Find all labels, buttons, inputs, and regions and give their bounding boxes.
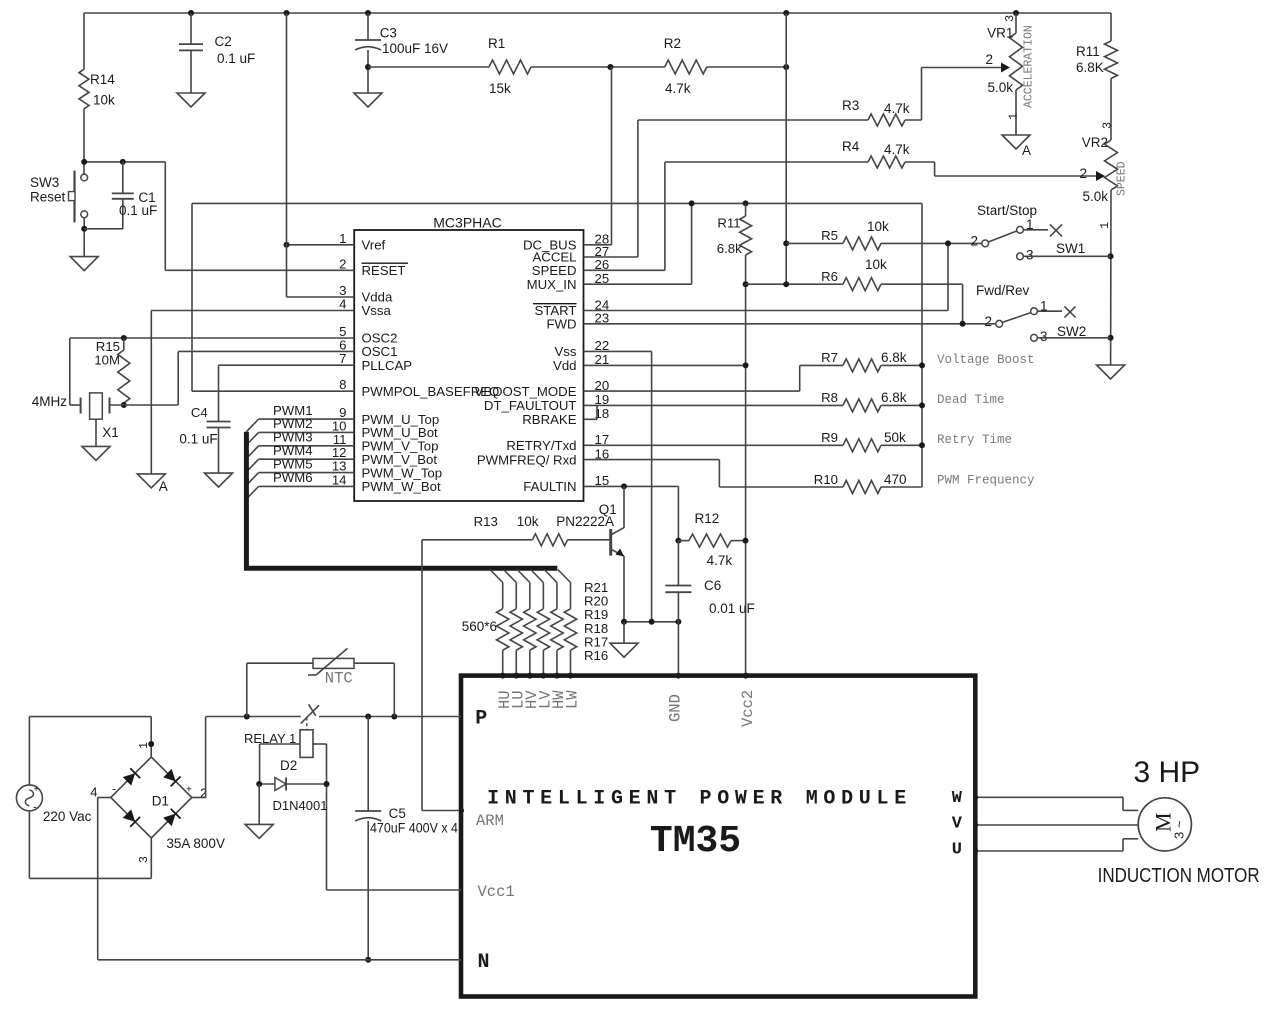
svg-text:8: 8 — [339, 377, 346, 392]
junction rail-VR1 — [1013, 10, 1019, 16]
resistor R9 — [843, 439, 881, 452]
svg-text:-: - — [33, 802, 37, 814]
junction C3-R1 — [365, 64, 371, 70]
wire pin25 MUX_IN — [584, 283, 692, 285]
capacitor C1 — [84, 162, 134, 229]
svg-text:1: 1 — [1007, 113, 1021, 120]
thermistor NTC — [313, 658, 354, 668]
wire R12 wires — [678, 540, 689, 542]
diode D1 3-2 — [163, 814, 176, 827]
junction NTC right — [391, 714, 397, 720]
svg-text:1: 1 — [138, 742, 151, 749]
resistor R5 — [843, 237, 881, 250]
switch SW2 — [996, 308, 1062, 341]
svg-text:R9: R9 — [821, 430, 838, 445]
svg-text:PWM_W_Top: PWM_W_Top — [362, 465, 443, 480]
svg-text:X1: X1 — [102, 425, 119, 440]
junction GND pin — [675, 673, 681, 679]
junction U pin — [973, 848, 978, 853]
junction SW2-3 — [1108, 335, 1114, 341]
svg-text:C2: C2 — [215, 34, 232, 49]
svg-text:Vdd: Vdd — [553, 358, 576, 373]
svg-text:15k: 15k — [489, 81, 511, 96]
svg-text:4: 4 — [90, 785, 97, 800]
junction R6-rail — [743, 281, 749, 287]
svg-text:RESET: RESET — [362, 263, 406, 278]
svg-text:470: 470 — [884, 472, 907, 487]
svg-text:A: A — [1022, 143, 1031, 158]
svg-text:Fwd/Rev: Fwd/Rev — [976, 283, 1030, 298]
svg-text:SPEED: SPEED — [1116, 161, 1129, 196]
svg-text:SW3: SW3 — [30, 175, 59, 190]
wire SW1-3 to gnd col — [1023, 255, 1110, 257]
ic IPM TM35 box — [461, 676, 975, 997]
wire x786 vertical — [785, 13, 787, 284]
svg-text:PWM6: PWM6 — [273, 470, 313, 485]
ground VR2/SW — [1097, 365, 1125, 379]
svg-text:PLLCAP: PLLCAP — [362, 358, 413, 373]
wire pin21 Vdd — [584, 364, 746, 366]
resistor R4 — [868, 156, 905, 168]
ground Q1 — [610, 643, 638, 657]
wire R10 line left — [719, 486, 843, 488]
ground D2 — [245, 824, 273, 838]
labels R16-R21 — [584, 580, 608, 663]
svg-text:4.7k: 4.7k — [665, 81, 691, 96]
resistor R1 — [489, 60, 531, 74]
wire U out — [975, 850, 1123, 852]
wire pin17 RETRY to R9 — [584, 444, 844, 446]
wire START up to R5 — [947, 243, 949, 310]
svg-text:W: W — [952, 789, 963, 808]
svg-text:3: 3 — [1003, 15, 1017, 22]
svg-text:INDUCTION MOTOR: INDUCTION MOTOR — [1098, 865, 1260, 887]
svg-text:10k: 10k — [867, 219, 889, 234]
svg-text:R14: R14 — [90, 72, 115, 87]
junction C5 bottom — [365, 957, 371, 963]
wire R2 right — [707, 66, 787, 68]
wire reset top — [84, 161, 165, 163]
wire R4 right — [905, 161, 935, 163]
junction FAULTIN-Q1 — [621, 483, 627, 489]
svg-text:Vss: Vss — [555, 344, 577, 359]
junction W pin — [973, 795, 978, 800]
wire OSC1 down — [177, 351, 179, 405]
svg-text:560*6: 560*6 — [462, 619, 497, 634]
junction V pin — [973, 822, 978, 827]
junction R12 left — [675, 538, 681, 544]
junction bridge pin1 — [148, 741, 154, 747]
wire W out — [975, 796, 1123, 798]
wire D2 gnd stub — [258, 784, 260, 824]
svg-text:A: A — [159, 479, 168, 494]
junction C6-node — [675, 619, 681, 625]
wire pin5 OSC2 — [70, 337, 354, 339]
resistor R15 — [118, 338, 130, 405]
resistor R11 pullup 6.8k — [740, 203, 752, 675]
wire R3 right — [905, 119, 922, 121]
svg-text:-: - — [112, 781, 116, 795]
svg-text:6: 6 — [339, 337, 346, 352]
svg-text:4.7k: 4.7k — [707, 553, 733, 568]
wire Vcc1 line — [327, 889, 462, 891]
svg-text:3 HP: 3 HP — [1133, 756, 1200, 789]
resistor R10 — [843, 481, 881, 494]
wire pullup bus top — [192, 202, 922, 204]
junction pullup-R11 — [743, 200, 749, 206]
svg-text:Vcc2: Vcc2 — [739, 690, 757, 727]
wire AC bottom right — [29, 877, 151, 879]
wire SPEED up — [664, 162, 666, 270]
wire R9 right — [881, 444, 922, 446]
wire AC top up — [28, 717, 30, 785]
svg-text:D1N4001: D1N4001 — [273, 798, 328, 813]
svg-text:3 ~: 3 ~ — [1172, 820, 1187, 839]
motor M 3~ — [1138, 798, 1191, 851]
svg-text:13: 13 — [332, 459, 347, 474]
wire coil left — [260, 743, 300, 745]
junction R15 top — [121, 335, 127, 341]
junctions 560 bank to IPM — [500, 673, 574, 679]
capacitor C3 — [355, 13, 381, 93]
ground X1 — [82, 446, 110, 460]
wire pin27 ACCEL — [584, 256, 638, 258]
svg-text:R12: R12 — [695, 511, 720, 526]
switch SW3 — [69, 171, 88, 223]
svg-text:3: 3 — [1040, 329, 1048, 344]
resistor R13 — [533, 534, 568, 546]
svg-text:VR2: VR2 — [1082, 135, 1108, 150]
svg-text:50k: 50k — [884, 430, 906, 445]
crystal X1 — [81, 393, 110, 419]
wire pin2 RESET — [165, 269, 354, 271]
wire R13 left — [422, 539, 533, 541]
resistors 560*6 bank R16-R21 — [490, 570, 577, 676]
svg-text:+: + — [186, 784, 192, 795]
wire bridge1 lead — [150, 717, 152, 757]
wire pin7 PLLCAP — [219, 364, 355, 366]
svg-text:R16: R16 — [584, 648, 608, 663]
wire N line — [98, 959, 461, 961]
switch SW1 — [982, 226, 1048, 259]
svg-text:470uF 400V x 4: 470uF 400V x 4 — [370, 821, 458, 836]
wire pin16 PWMFREQ — [584, 459, 720, 461]
ground VR1 A — [1002, 135, 1030, 149]
junction R15 bottom — [121, 402, 127, 408]
wire Vssa down — [150, 311, 152, 474]
svg-text:SW2: SW2 — [1057, 324, 1086, 339]
wire reset route right — [164, 162, 166, 270]
svg-text:2: 2 — [339, 256, 346, 271]
wire pin26 SPEED — [584, 269, 665, 271]
transistor Q1 — [611, 528, 624, 557]
svg-text:2: 2 — [970, 234, 978, 249]
wire P line — [206, 716, 301, 718]
wire NTC right down — [393, 663, 395, 716]
labels HU LU HV LV HW LW — [496, 690, 582, 709]
svg-text:N: N — [478, 951, 490, 974]
svg-text:Voltage Boost: Voltage Boost — [937, 353, 1035, 367]
svg-text:4.7k: 4.7k — [884, 101, 910, 116]
wire R1 to node — [531, 66, 665, 68]
svg-text:MC3PHAC: MC3PHAC — [433, 215, 501, 231]
svg-text:OSC1: OSC1 — [362, 344, 398, 359]
svg-text:6.8k: 6.8k — [717, 241, 742, 256]
wire pin19 DT to R8 — [584, 404, 844, 406]
wire VR2 wiper line — [935, 175, 1098, 177]
junction SW1-3 — [1108, 253, 1114, 259]
wire VBOOST step up — [799, 365, 801, 391]
potentiometer VR1 — [1010, 13, 1023, 135]
svg-text:Vcc1: Vcc1 — [478, 883, 515, 901]
diode D2 — [259, 778, 326, 791]
svg-text:PWMFREQ/ Rxd: PWMFREQ/ Rxd — [477, 452, 577, 467]
ground C3 — [354, 93, 382, 107]
wire R3 to VR1 wiper — [921, 68, 923, 121]
svg-text:R8: R8 — [821, 390, 838, 405]
svg-text:VBOOST_MODE: VBOOST_MODE — [475, 384, 577, 399]
wire SW3 bottom — [83, 218, 85, 257]
wire VR2 down — [1110, 190, 1112, 365]
wire pin22 Vss — [584, 350, 652, 352]
svg-text:RBRAKE: RBRAKE — [522, 412, 576, 427]
wire crystal right — [110, 404, 179, 406]
wire bridge3 lead — [150, 838, 152, 878]
svg-text:D2: D2 — [280, 758, 297, 773]
capacitor C2 — [179, 13, 203, 93]
svg-text:FWD: FWD — [546, 317, 576, 332]
resistor R2 — [665, 60, 707, 74]
diode D1 4-3 — [123, 809, 136, 822]
svg-text:2: 2 — [1079, 166, 1087, 181]
junction D2 right — [324, 781, 330, 787]
svg-text:Start/Stop: Start/Stop — [977, 203, 1037, 218]
svg-text:R3: R3 — [842, 98, 859, 113]
svg-text:3: 3 — [1101, 122, 1115, 129]
wire R5 right — [881, 242, 982, 244]
junction SW3-C1 bottom — [81, 226, 87, 232]
wire PWM pin lines — [246, 419, 354, 499]
junction R6-x786 — [783, 281, 789, 287]
wire pin20 VBOOST — [584, 390, 800, 392]
capacitor C6 — [665, 541, 691, 676]
svg-text:10k: 10k — [93, 93, 115, 108]
junction NTC left — [244, 714, 250, 720]
svg-text:FAULTIN: FAULTIN — [523, 479, 576, 494]
resistor R7 — [843, 359, 881, 372]
resistor R12 — [689, 534, 731, 547]
junction Vdd-rail — [743, 362, 749, 368]
wire pullup bus down — [921, 203, 923, 487]
relay contact — [301, 705, 319, 723]
wire X1 ground stub — [95, 419, 97, 446]
wire R7 line left — [800, 364, 843, 366]
wire gnd stub Q1 — [623, 622, 625, 643]
wire W jog — [1122, 797, 1124, 810]
wire pin28 DC_BUS — [584, 244, 612, 246]
svg-text:7: 7 — [339, 351, 346, 366]
wire AC top right — [29, 716, 151, 718]
svg-text:GND: GND — [667, 694, 685, 722]
svg-text:4: 4 — [339, 297, 346, 312]
junction Vcc2 pin — [743, 673, 749, 679]
wire pin6 OSC1 — [178, 350, 354, 352]
ic MC3PHAC box — [354, 230, 583, 501]
wiper VR1 — [1001, 63, 1010, 73]
junction C5 top — [365, 714, 371, 720]
svg-text:ACCELERATION: ACCELERATION — [1023, 25, 1036, 108]
wire NTC left up — [246, 663, 248, 716]
bus PWM thick — [246, 432, 557, 569]
svg-text:R6: R6 — [821, 269, 838, 284]
wire pin4 Vssa — [151, 310, 354, 312]
junction rail-Vref — [284, 10, 290, 16]
x mark SW2 — [1065, 306, 1076, 317]
wire C3 to R1 — [368, 66, 489, 68]
svg-text:PWM Frequency: PWM Frequency — [937, 474, 1035, 488]
wiper VR2 — [1096, 171, 1105, 181]
svg-text:R5: R5 — [821, 228, 838, 243]
source 220Vac — [16, 784, 42, 814]
svg-text:PWM_W_Bot: PWM_W_Bot — [362, 479, 441, 494]
wire P line2 — [319, 716, 461, 718]
wire R8 right — [881, 404, 922, 406]
svg-text:C3: C3 — [380, 26, 397, 41]
junction rail-C2 — [188, 10, 194, 16]
svg-text:PWM5: PWM5 — [273, 456, 313, 471]
svg-text:DT_FAULTOUT: DT_FAULTOUT — [484, 398, 577, 413]
wire pin1 Vref — [287, 244, 355, 246]
svg-text:100uF 16V: 100uF 16V — [382, 41, 448, 56]
svg-text:LW: LW — [564, 690, 582, 709]
svg-text:6.8k: 6.8k — [881, 390, 907, 405]
svg-text:1: 1 — [339, 231, 346, 246]
svg-text:2: 2 — [985, 52, 993, 67]
wire PWMFREQ down — [718, 460, 720, 487]
wire Q1 collector up — [623, 486, 625, 528]
wire NTC top right — [354, 662, 394, 664]
capacitor C5 — [355, 717, 381, 960]
wire R7 right — [881, 364, 922, 366]
svg-text:P: P — [475, 708, 487, 731]
svg-text:+: + — [34, 784, 39, 794]
resistor R11 6.8K — [1105, 13, 1118, 140]
svg-text:NTC: NTC — [325, 670, 353, 688]
wire R4 jog down — [934, 162, 936, 176]
svg-text:C6: C6 — [704, 578, 721, 593]
node rail-R14 — [83, 12, 85, 14]
junction R8-bus — [919, 402, 925, 408]
svg-text:14: 14 — [332, 472, 347, 487]
potentiometer VR2 — [1105, 140, 1118, 190]
svg-text:10k: 10k — [517, 514, 539, 529]
svg-text:SW1: SW1 — [1056, 241, 1085, 256]
diode D1 4-1 — [123, 773, 136, 786]
junction pullup-MUXIN — [689, 200, 695, 206]
wire R6 right — [881, 283, 963, 285]
svg-text:R2: R2 — [664, 36, 681, 51]
label PWM1-PWM6 — [273, 403, 313, 485]
svg-text:R7: R7 — [821, 350, 838, 365]
wire VR1 wiper line — [922, 67, 1004, 69]
svg-text:3: 3 — [138, 856, 151, 863]
wire pin23 FWD — [584, 323, 996, 325]
wire pin8 up — [191, 203, 193, 391]
svg-text:1: 1 — [1098, 222, 1112, 229]
svg-text:4.7k: 4.7k — [884, 142, 910, 157]
svg-text:R10: R10 — [814, 472, 838, 487]
junction R12 right — [743, 538, 749, 544]
wire R13 to base — [568, 539, 611, 541]
wire crystal left — [70, 404, 81, 406]
wire AC bottom down — [28, 811, 30, 879]
svg-text:C5: C5 — [389, 806, 406, 821]
wire R6 left — [746, 283, 843, 285]
diode D1 1-2 — [163, 769, 176, 782]
wire ACCEL to R3 — [638, 119, 868, 121]
svg-text:U: U — [952, 841, 962, 860]
wire coil right — [313, 743, 327, 745]
svg-text:R11: R11 — [1076, 44, 1100, 59]
ground A — [137, 474, 165, 488]
wire emitter node — [624, 621, 678, 623]
relay coil RELAY1 — [300, 730, 313, 758]
junction D2 left — [256, 781, 262, 787]
wire R5 left — [786, 242, 843, 244]
wire bridge2 lead — [192, 797, 206, 799]
svg-text:1: 1 — [1026, 217, 1034, 232]
svg-text:VR1: VR1 — [987, 26, 1013, 41]
svg-text:35A 800V: 35A 800V — [166, 836, 225, 851]
svg-text:R11: R11 — [717, 216, 740, 231]
svg-text:Reset: Reset — [30, 190, 66, 205]
wire R10 right — [881, 486, 922, 488]
svg-text:RETRY/Txd: RETRY/Txd — [506, 438, 576, 453]
wire pin18 RBRAKE stub — [584, 418, 598, 420]
svg-text:INTELLIGENT POWER MODULE: INTELLIGENT POWER MODULE — [487, 788, 912, 811]
wire Q1 emitter down — [623, 556, 625, 622]
wire coil right down — [326, 744, 328, 890]
svg-text:C4: C4 — [191, 405, 208, 420]
ground C2 — [177, 93, 205, 107]
resistor R8 — [843, 399, 881, 412]
capacitor C4 — [207, 365, 231, 473]
wire pin15 FAULTIN — [584, 485, 679, 487]
svg-text:5.0k: 5.0k — [987, 80, 1013, 95]
svg-text:4MHz: 4MHz — [32, 394, 68, 409]
junction R2-x786 — [783, 64, 789, 70]
svg-text:R4: R4 — [842, 139, 860, 154]
svg-text:0.1 uF: 0.1 uF — [119, 203, 157, 218]
wire pin3 Vdda — [287, 296, 355, 298]
wire bridge4 down — [97, 798, 99, 960]
svg-text:Retry Time: Retry Time — [937, 433, 1012, 447]
svg-text:D1: D1 — [152, 794, 169, 809]
wire U jog — [1122, 839, 1124, 851]
junction rail-x786 — [783, 10, 789, 16]
svg-text:MUX_IN: MUX_IN — [527, 277, 577, 292]
wire NTC top left — [247, 662, 313, 664]
svg-text:R1: R1 — [488, 36, 505, 51]
wire SW2-3 to gnd col — [1037, 337, 1110, 339]
svg-text:10k: 10k — [865, 257, 887, 272]
svg-text:TM35: TM35 — [650, 820, 741, 863]
wire DC_BUS up — [611, 67, 613, 245]
resistor R14 — [79, 13, 89, 174]
wire bridge4 lead — [98, 797, 111, 799]
svg-text:0.1 uF: 0.1 uF — [179, 432, 217, 447]
wire SPEED to R4 — [665, 161, 868, 163]
